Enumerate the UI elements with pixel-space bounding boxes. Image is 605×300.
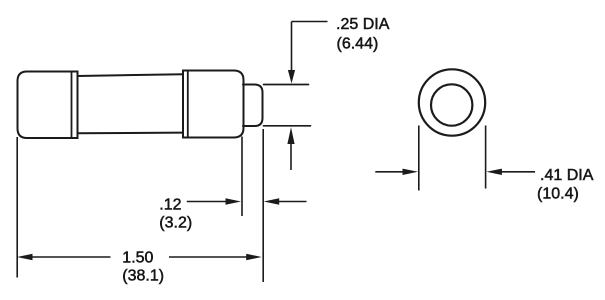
svg-text:.25 DIA: .25 DIA: [336, 16, 390, 33]
svg-text:(3.2): (3.2): [159, 215, 192, 232]
svg-text:(38.1): (38.1): [122, 268, 164, 285]
svg-text:1.50: 1.50: [122, 249, 153, 266]
svg-text:.41 DIA: .41 DIA: [540, 167, 594, 184]
svg-text:.12: .12: [159, 196, 181, 213]
svg-text:(6.44): (6.44): [337, 36, 379, 53]
svg-text:(10.4): (10.4): [537, 186, 579, 203]
